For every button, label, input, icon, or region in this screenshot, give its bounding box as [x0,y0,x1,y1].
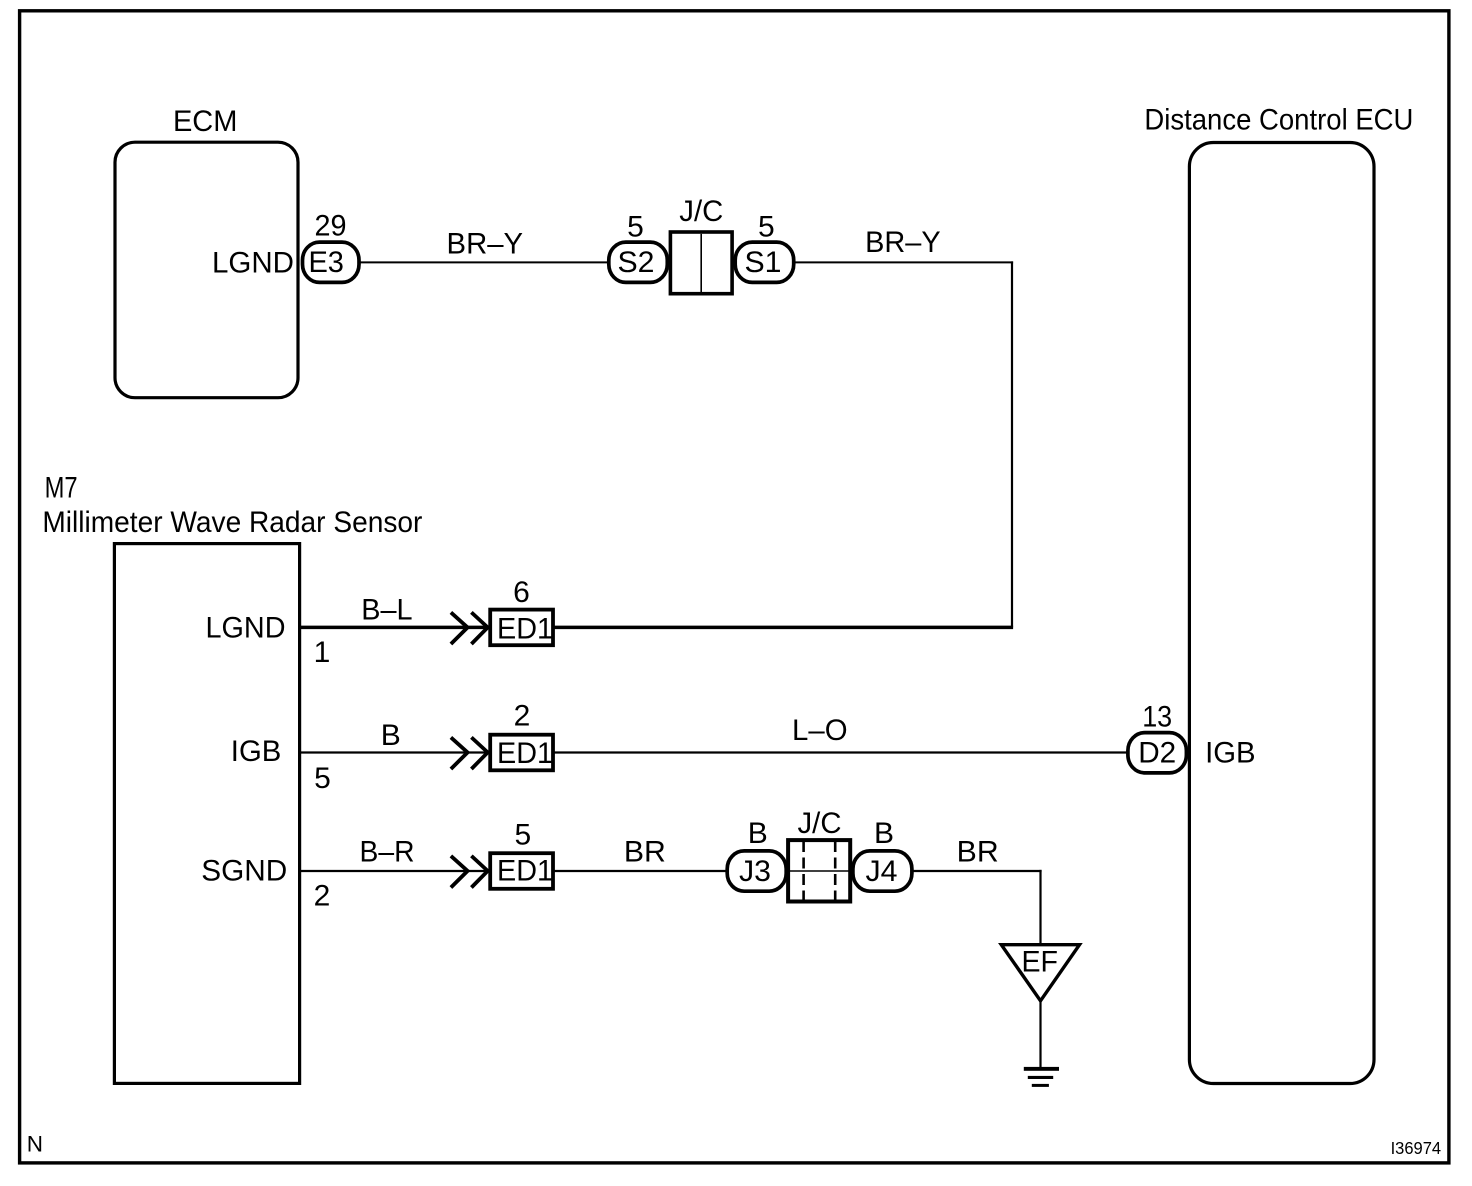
connector terminal D2 [1128,733,1187,773]
shield arrows row1 [451,612,488,644]
svg-text:BR–Y: BR–Y [865,226,941,259]
wire EF to ground [1039,1000,1041,1067]
ground triangle EF [1001,945,1079,1001]
connector box ED1 row1 [490,610,553,646]
connector box ED1 row2 [490,735,553,771]
svg-text:2: 2 [314,880,331,913]
connector terminal J3 [727,851,786,891]
svg-text:BR: BR [957,835,999,868]
Millimeter Wave Radar Sensor box M7 [114,544,299,1084]
svg-text:Millimeter Wave Radar Sensor: Millimeter Wave Radar Sensor [42,506,422,539]
svg-text:J/C: J/C [679,195,723,228]
svg-text:D2: D2 [1138,737,1176,770]
wire row3 left (SGND to ED1) [300,870,489,872]
svg-text:ED1: ED1 [497,855,553,888]
svg-text:ECM: ECM [173,105,238,138]
svg-text:N: N [27,1131,43,1156]
svg-text:B: B [874,817,894,850]
svg-text:BR–Y: BR–Y [447,227,524,260]
svg-text:1: 1 [314,636,331,669]
svg-text:5: 5 [627,211,644,244]
wire row3 (ED1 to J3) [555,870,728,872]
connector terminal S2 [609,242,668,282]
svg-text:2: 2 [514,699,531,732]
wire row1 right segment (ED1 to corner) [555,626,1014,630]
wire down to EF [1039,870,1041,945]
connector terminal E3 [303,242,360,282]
svg-text:5: 5 [314,762,331,795]
junction dashed line right [834,841,837,901]
connector terminal J4 [853,851,912,891]
svg-text:I36974: I36974 [1391,1138,1442,1158]
svg-text:Distance Control ECU: Distance Control ECU [1144,104,1413,137]
svg-text:J4: J4 [866,855,898,888]
svg-text:5: 5 [514,819,531,852]
junction connector divider (top) [700,234,702,294]
wire row2 right (ED1 to D2) [555,751,1129,753]
junction connector box (bottom) [788,840,850,901]
svg-text:L–O: L–O [792,714,848,747]
svg-text:29: 29 [315,209,347,242]
svg-text:J3: J3 [739,855,771,888]
connector box ED1 row3 [490,853,553,889]
svg-text:B–R: B–R [360,836,415,869]
svg-text:ED1: ED1 [497,612,553,645]
svg-text:IGB: IGB [231,735,282,768]
junction dashed line left [802,841,805,901]
ECM box [115,142,298,398]
svg-text:B: B [748,817,768,850]
Distance Control ECU box [1189,143,1374,1084]
wire J4 right [912,870,1042,872]
wire through junction box [786,870,852,872]
wire vertical BR-Y down [1011,261,1013,627]
svg-text:S1: S1 [745,246,782,279]
svg-text:M7: M7 [45,472,78,505]
svg-text:BR: BR [624,835,666,868]
svg-text:EF: EF [1021,945,1058,978]
svg-text:B: B [381,719,401,752]
connector terminal S1 [735,242,794,282]
shield arrows row2 [451,737,488,769]
wire S1 right [794,261,1013,263]
wire E3 to S2 [359,261,608,263]
svg-text:LGND: LGND [206,611,286,644]
svg-text:E3: E3 [308,246,344,279]
wire row2 left (IGB to ED1) [300,751,489,753]
svg-text:IGB: IGB [1205,737,1256,770]
svg-text:SGND: SGND [201,855,287,888]
svg-text:6: 6 [513,576,530,609]
svg-text:B–L: B–L [361,594,412,627]
wire row1 left (LGND to ED1) [300,626,489,630]
svg-text:5: 5 [758,211,775,244]
ground symbol [1024,1067,1059,1087]
junction connector box (top) [670,232,732,294]
svg-text:J/C: J/C [798,807,842,840]
svg-text:ED1: ED1 [497,737,553,770]
svg-text:S2: S2 [618,246,655,279]
svg-text:13: 13 [1142,700,1172,733]
svg-text:LGND: LGND [212,247,294,280]
shield arrows row3 [451,856,488,888]
